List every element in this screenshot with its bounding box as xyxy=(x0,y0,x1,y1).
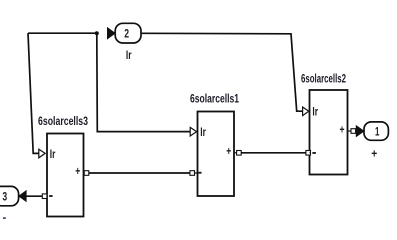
svg-text:+: + xyxy=(226,144,231,158)
connection square at 6solarcells1 minus xyxy=(190,171,198,176)
subsystem block 6solarcells1 xyxy=(198,112,235,197)
connection square at 6solarcells3 minus xyxy=(42,194,47,199)
wire: 6solarcells1 plus to 6solarcells2 minus xyxy=(241,152,306,154)
svg-text:Ir: Ir xyxy=(50,147,56,161)
port Inport 3 oval (clipped at left edge) xyxy=(0,186,19,205)
svg-text:+: + xyxy=(340,123,345,137)
wire: port 2 right side to 6solarcells2 Ir xyxy=(141,33,303,111)
wire: 6solarcells2 plus to port 1 xyxy=(356,130,357,132)
svg-text:6solarcells1: 6solarcells1 xyxy=(190,91,239,105)
svg-text:Ir: Ir xyxy=(126,48,132,62)
input port arrow Ir of 6solarcells2 xyxy=(303,107,309,116)
wire: port 3 to 6solarcells3 minus xyxy=(26,195,42,197)
input port arrow Ir of 6solarcells1 xyxy=(190,127,196,136)
svg-text:1: 1 xyxy=(375,124,380,138)
arrowhead into port 2 xyxy=(107,28,115,39)
arrowhead into port 1 xyxy=(356,126,364,137)
wire: 6solarcells3 plus to 6solarcells1 minus xyxy=(89,172,190,174)
svg-text:Ir: Ir xyxy=(312,104,318,118)
connection square at 6solarcells3 plus xyxy=(84,171,89,176)
svg-text:+: + xyxy=(75,164,80,178)
clipped label speck at bottom left xyxy=(3,217,6,219)
arrowhead at port 3 xyxy=(19,191,26,202)
wire: left branch down to 6solarcells3 Ir xyxy=(28,33,39,153)
connection square at 6solarcells2 plus xyxy=(348,129,356,134)
connection square at 6solarcells2 minus xyxy=(306,151,311,156)
wire: junction down to 6solarcells1 Ir xyxy=(97,33,190,131)
input port arrow Ir of 6solarcells3 xyxy=(39,149,45,158)
svg-text:6solarcells3: 6solarcells3 xyxy=(38,114,88,128)
junction node dot xyxy=(95,31,99,35)
svg-text:+: + xyxy=(371,146,377,160)
wire: Ir net horizontal segment to junction xyxy=(28,32,97,34)
port Inport 2 oval xyxy=(115,23,141,43)
svg-text:Ir: Ir xyxy=(200,125,206,139)
connection square at 6solarcells1 plus xyxy=(234,151,241,156)
subsystem block 6solarcells3 xyxy=(47,134,84,217)
subsystem block 6solarcells2 xyxy=(310,90,348,175)
svg-text:2: 2 xyxy=(124,26,129,40)
svg-text:6solarcells2: 6solarcells2 xyxy=(301,72,346,86)
svg-text:3: 3 xyxy=(2,189,7,203)
port Outport 1 oval xyxy=(364,122,388,140)
